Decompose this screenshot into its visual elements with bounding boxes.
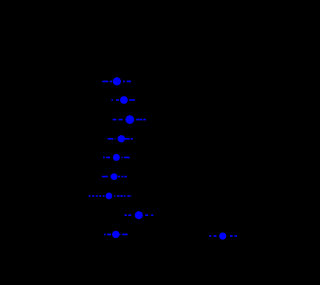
error bar row 5 dashes	[103, 156, 130, 158]
error bar row 3 dashes	[113, 119, 146, 121]
error bar row 10 dashes	[209, 235, 237, 237]
error bar row 1 dashes	[102, 80, 131, 82]
error bar row 7 dashes	[89, 195, 132, 197]
marker row 3	[126, 115, 135, 124]
marker row 2	[120, 96, 128, 104]
marker row 10	[219, 233, 226, 240]
marker row 6	[111, 173, 118, 180]
marker row 5	[113, 154, 120, 161]
error bar row 6 dashes	[102, 176, 127, 178]
marker row 1	[113, 77, 121, 85]
marker row 8	[135, 211, 143, 219]
error bar row 4 dashes	[108, 138, 133, 140]
error bar row 8 dashes	[125, 214, 154, 216]
marker row 7	[106, 193, 113, 200]
error bar row 2 dashes	[111, 99, 135, 101]
error bar row 9 dashes	[104, 233, 128, 235]
marker row 9	[112, 231, 119, 238]
marker row 4	[118, 135, 125, 142]
